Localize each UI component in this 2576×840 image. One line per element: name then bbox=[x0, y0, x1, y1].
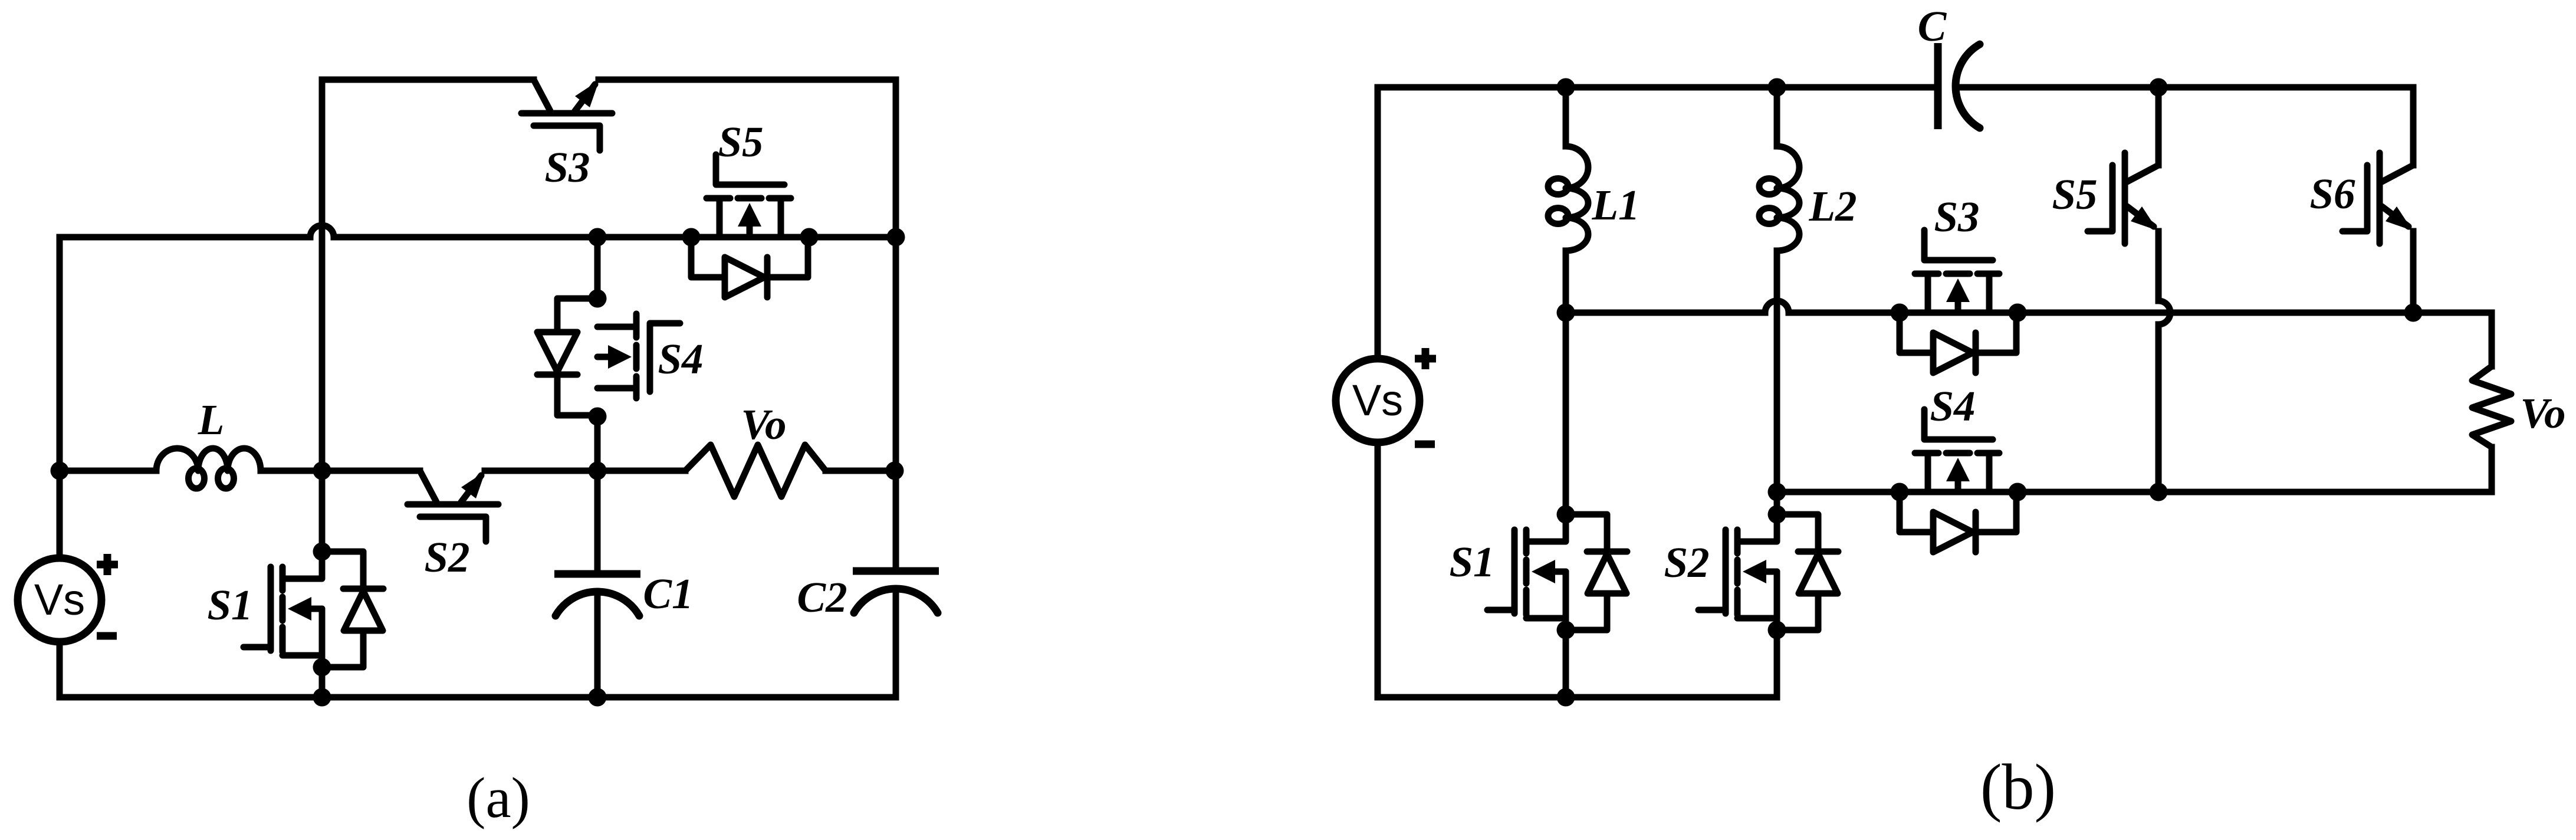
wire C1 to bottom rail (a) bbox=[594, 592, 601, 697]
svg-text:Vs: Vs bbox=[1352, 376, 1403, 425]
wire L2-to-S2 vertical (b) bbox=[1774, 251, 1780, 514]
node M1 S6-emitter junction (b) bbox=[2404, 304, 2423, 322]
wire top rail right segment (b) bbox=[1956, 84, 2413, 91]
wire left vertical upper (a) bbox=[57, 237, 63, 558]
label S6 (b) bbox=[2309, 170, 2355, 218]
svg-text:Vs: Vs bbox=[34, 575, 85, 624]
label S2 (a) bbox=[424, 533, 469, 581]
svg-text:S4: S4 bbox=[1930, 382, 1975, 430]
label L1 (b) bbox=[1591, 181, 1639, 229]
node inductor-x546 junction (a) bbox=[313, 462, 331, 480]
label S2 (b) bbox=[1664, 539, 1709, 586]
svg-text:Vo: Vo bbox=[2520, 389, 2565, 437]
wire L2 top lead (b) bbox=[1774, 87, 1780, 146]
label Vs (a) bbox=[34, 575, 85, 624]
node S2-emitter junction (a) bbox=[589, 462, 607, 480]
svg-text:S1: S1 bbox=[207, 581, 252, 629]
node S4-branch top junction (a) bbox=[589, 228, 607, 247]
label S5 (b) bbox=[2052, 170, 2097, 218]
wire bottom rail (b) bbox=[1378, 694, 1777, 701]
wire Vs vertical upper (b) bbox=[1375, 87, 1381, 359]
minus sign (a) bbox=[97, 632, 117, 640]
svg-text:L2: L2 bbox=[1808, 182, 1857, 230]
wire right vertical upper (a) bbox=[893, 80, 899, 571]
caption (b) bbox=[1980, 751, 2056, 823]
wire H-mid left lead (a) bbox=[60, 468, 156, 474]
svg-text:S6: S6 bbox=[2309, 170, 2355, 218]
wire H-mid L-to-S2 (a) bbox=[261, 468, 420, 474]
label S1 (b) bbox=[1449, 538, 1494, 586]
node bottom rail S1 junction (b) bbox=[1557, 688, 1575, 707]
inductor L1 (b) bbox=[1548, 146, 1588, 251]
node top rail L2 junction (b) bbox=[1768, 78, 1786, 97]
inductor L (a) bbox=[156, 448, 261, 488]
label C2 (a) bbox=[797, 573, 847, 621]
svg-text:S2: S2 bbox=[424, 533, 469, 581]
svg-text:C: C bbox=[1918, 2, 1947, 50]
wire S5 collector drop (b) bbox=[2156, 87, 2162, 165]
transistor S2 (a) bbox=[408, 471, 498, 542]
transistor S3 (b) bbox=[1891, 230, 2027, 373]
minus sign (b) bbox=[1415, 441, 1435, 448]
node M2 S5-emitter junction (b) bbox=[2150, 483, 2168, 501]
label S4 (b) bbox=[1930, 382, 1975, 430]
wire vertical x=546 upper (a) bbox=[319, 80, 326, 552]
plus sign (a) bbox=[97, 554, 118, 575]
label C (b) bbox=[1918, 2, 1947, 50]
svg-text:C2: C2 bbox=[797, 573, 847, 621]
wire H-mid S2-to-Vo (a) bbox=[485, 468, 685, 474]
svg-text:S3: S3 bbox=[544, 143, 590, 191]
label Vo (a) bbox=[741, 401, 786, 448]
label Vo (b) bbox=[2520, 389, 2565, 437]
transistor S5 (b) bbox=[2088, 153, 2158, 244]
svg-text:L: L bbox=[198, 396, 225, 444]
node top rail S5 junction (b) bbox=[2150, 78, 2168, 97]
label S5 (a) bbox=[718, 118, 763, 166]
wire H-mid Vo-to-right (a) bbox=[826, 468, 896, 474]
wire S4 branch to C1 (a) bbox=[594, 414, 601, 574]
label L2 (b) bbox=[1808, 182, 1857, 230]
caption (a) bbox=[466, 766, 530, 829]
label L (a) bbox=[198, 396, 225, 444]
inductor L2 (b) bbox=[1759, 146, 1799, 251]
transistor S2 (b) bbox=[1698, 506, 1838, 639]
transistor S1 (a) bbox=[244, 543, 383, 677]
wire S6 collector drop (b) bbox=[2410, 87, 2417, 165]
wire S4 branch upper (a) bbox=[594, 237, 601, 298]
wire bottom rail (a) bbox=[60, 694, 896, 701]
wire L1 top lead (b) bbox=[1563, 87, 1569, 146]
node M1 L1 junction (b) bbox=[1557, 304, 1575, 322]
transistor S5 (a) bbox=[682, 155, 819, 297]
label S3 (b) bbox=[1934, 193, 1979, 241]
transistor S4 (a) bbox=[537, 290, 680, 426]
svg-text:(a): (a) bbox=[466, 766, 530, 829]
node top rail L1 junction (b) bbox=[1557, 78, 1575, 97]
transistor S1 (b) bbox=[1487, 506, 1627, 639]
wire Vo bottom lead (b) bbox=[2489, 447, 2495, 492]
wire top rail left segment (a) bbox=[322, 77, 534, 83]
svg-text:S2: S2 bbox=[1664, 539, 1709, 586]
wire Vs vertical lower (b) bbox=[1375, 442, 1381, 697]
node bottom rail S1 junction (a) bbox=[313, 688, 331, 707]
node Vo-right junction (a) bbox=[886, 462, 904, 480]
transistor S3 (a) bbox=[521, 80, 612, 150]
label Vs (b) bbox=[1352, 376, 1403, 425]
svg-text:C1: C1 bbox=[643, 570, 693, 618]
svg-text:S5: S5 bbox=[718, 118, 763, 166]
wire top rail left segment (b) bbox=[1378, 84, 1938, 91]
svg-text:S1: S1 bbox=[1449, 538, 1494, 586]
transistor S4 (b) bbox=[1891, 409, 2027, 552]
wire vertical x=546 lower (a) bbox=[319, 667, 326, 697]
wire S6 emitter (b) bbox=[2410, 231, 2417, 313]
voltage source Vs (a) bbox=[18, 558, 101, 642]
voltage source Vs (b) bbox=[1336, 359, 1420, 442]
wire M2 rail (b) bbox=[1777, 489, 2492, 496]
node L-input junction (a) bbox=[51, 462, 69, 480]
svg-text:S5: S5 bbox=[2052, 170, 2097, 218]
capacitor C2 (a) bbox=[853, 571, 939, 613]
svg-text:Vo: Vo bbox=[741, 401, 786, 448]
node bottom rail C1 junction (a) bbox=[589, 688, 607, 707]
label S3 (a) bbox=[544, 143, 590, 191]
svg-text:(b): (b) bbox=[1980, 751, 2056, 823]
node H1-right junction (a) bbox=[887, 228, 905, 247]
svg-text:S3: S3 bbox=[1934, 193, 1979, 241]
resistor Vo (a) bbox=[685, 445, 826, 497]
wire S5 emitter with hop over M1 (b) bbox=[2158, 231, 2170, 492]
capacitor C (b) bbox=[1938, 43, 1980, 129]
wire top rail right segment (a) bbox=[599, 77, 896, 83]
label S4 (a) bbox=[658, 335, 703, 383]
wire right vertical lower (a) bbox=[893, 589, 899, 697]
wire H1 rail with hop over x=546 (a) bbox=[60, 225, 896, 237]
resistor Vo (b) bbox=[2472, 366, 2511, 447]
wire S1-to-bottom vertical (b) bbox=[1563, 630, 1569, 697]
label S1 (a) bbox=[207, 581, 252, 629]
svg-text:L1: L1 bbox=[1591, 181, 1639, 229]
plus sign (b) bbox=[1415, 348, 1436, 369]
node M2 S2 junction (b) bbox=[1768, 483, 1786, 501]
wire S2-to-bottom vertical (b) bbox=[1774, 630, 1780, 697]
wire M1 rail with hop over L2 (b) bbox=[1566, 301, 2492, 366]
wire L1-to-S1 vertical (b) bbox=[1563, 251, 1569, 514]
capacitor C1 (a) bbox=[554, 574, 640, 616]
transistor S6 (b) bbox=[2342, 153, 2413, 244]
wire left vertical lower (a) bbox=[57, 642, 63, 697]
label C1 (a) bbox=[643, 570, 693, 618]
svg-text:S4: S4 bbox=[658, 335, 703, 383]
